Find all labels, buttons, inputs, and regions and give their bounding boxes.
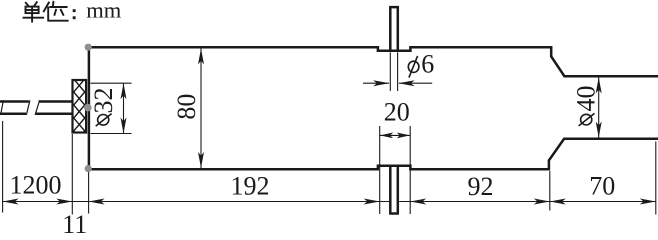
20 arrows [380, 133, 394, 139]
80 arrows [198, 49, 204, 65]
inlet pipe right segment [36, 102, 73, 114]
phi symbol of label phi32 [96, 114, 112, 127]
body left wall [88, 46, 91, 170]
bottom dimension chain line [3, 201, 656, 203]
phi6 dimension line tails [363, 82, 432, 84]
1200 arrows [3, 199, 19, 205]
svg-text:11: 11 [62, 210, 87, 239]
20 dimension line [380, 134, 411, 136]
svg-text:70: 70 [589, 172, 615, 201]
svg-text:mm: mm [86, 0, 122, 22]
header unit label: 单位 drawn as strokes [24, 2, 68, 22]
phi symbol of label phi6 [408, 56, 419, 78]
phi40 arrows [596, 77, 602, 93]
hanzi 单 [26, 3, 29, 6]
muffler body bottom outline with outlet-collar notch and right taper [89, 139, 658, 171]
pipe break cut marks [1, 100, 40, 115]
dimension texts [10, 49, 616, 239]
fullwidth colon [73, 9, 76, 12]
svg-text:32: 32 [89, 88, 118, 114]
92 arrows [410, 199, 426, 205]
svg-text:20: 20 [384, 97, 410, 126]
20 extension lines [380, 126, 411, 214]
phi6 extension lines [390, 52, 397, 91]
arrowheads [3, 49, 656, 205]
muffler body top outline with inlet-collar notch and right taper [89, 46, 658, 76]
top vent tube phi6 [389, 7, 399, 51]
phi6 arrows [373, 80, 389, 86]
thin extension and dimension lines [3, 49, 656, 215]
phi40 dimension line [598, 77, 600, 137]
svg-text:192: 192 [231, 172, 270, 201]
phi32 arrows [121, 83, 127, 99]
phi32 extension lines [91, 83, 132, 133]
hanzi 位 [44, 3, 49, 12]
80 dimension line [200, 49, 202, 169]
svg-text:80: 80 [172, 94, 201, 120]
svg-text:40: 40 [572, 86, 601, 112]
svg-text:1200: 1200 [10, 171, 62, 200]
phi32 dimension line [123, 83, 125, 133]
70 arrows [550, 199, 566, 205]
svg-text:92: 92 [468, 172, 494, 201]
gray node dots [85, 44, 92, 51]
absorber block (crosshatch) [73, 65, 87, 146]
phi symbol of label phi40 [579, 113, 595, 126]
bottom chain extension lines [2, 121, 4, 213]
inlet pipe left segment [0, 102, 29, 114]
bottom vent tube [389, 166, 399, 214]
svg-text:6: 6 [421, 49, 434, 78]
192 arrows [89, 199, 105, 205]
